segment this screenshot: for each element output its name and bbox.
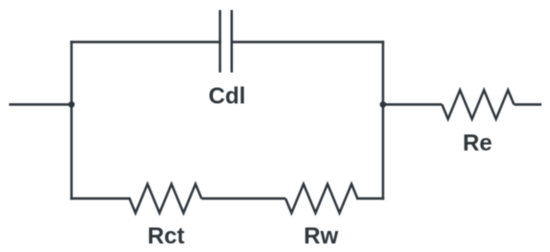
label Rct — [147, 223, 184, 249]
resistor Rct — [130, 184, 202, 213]
wire bottom rail left — [72, 197, 130, 199]
label Re — [463, 130, 492, 156]
node junction left — [68, 101, 74, 107]
wire bottom rail right — [358, 197, 384, 199]
wire output lead right — [514, 103, 542, 105]
wire top rail left — [72, 41, 221, 43]
svg-text:Rw: Rw — [304, 223, 339, 249]
wire top rail right — [232, 41, 383, 43]
label Cdl — [208, 83, 245, 109]
node junction right — [380, 101, 386, 107]
wire left vertical branch — [70, 42, 72, 199]
svg-text:Re: Re — [463, 130, 492, 156]
wire right vertical branch — [382, 42, 384, 199]
label Rw — [304, 223, 339, 249]
wire input lead left — [9, 103, 72, 105]
wire bottom rail middle — [202, 197, 286, 199]
svg-text:Rct: Rct — [147, 223, 184, 249]
wire lead junction to Re — [383, 103, 442, 105]
resistor Rw — [286, 184, 358, 213]
capacitor Cdl plates — [220, 10, 232, 73]
resistor Re — [442, 90, 514, 119]
svg-text:Cdl: Cdl — [208, 83, 245, 109]
